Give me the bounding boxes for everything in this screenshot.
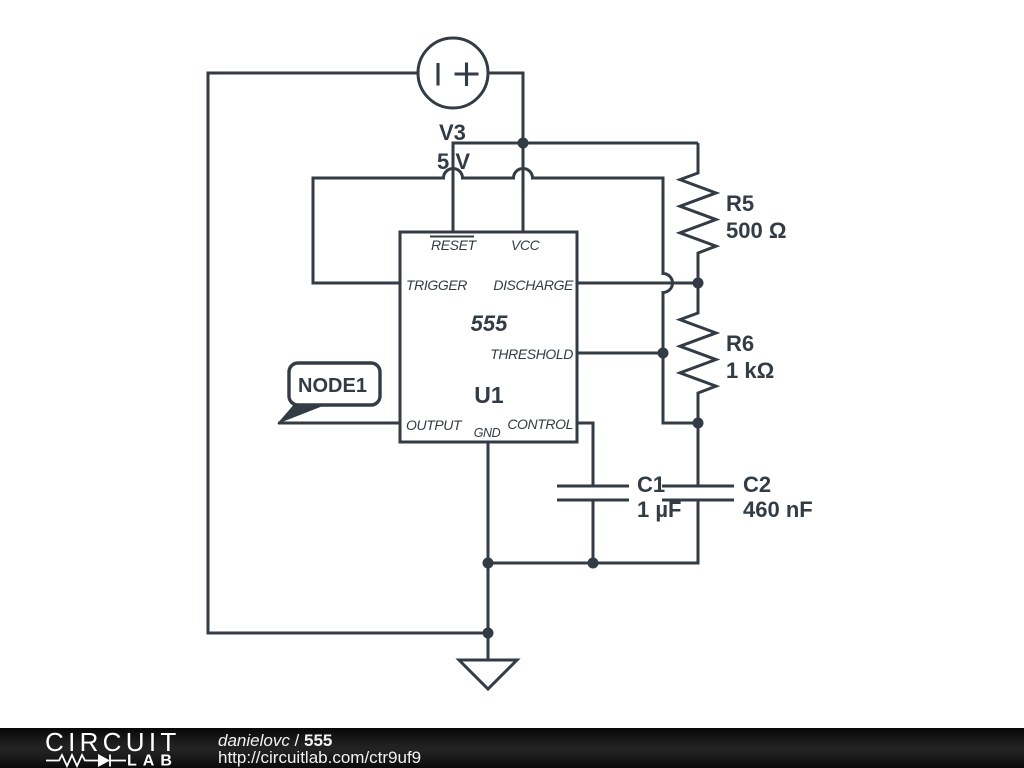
svg-text:500 Ω: 500 Ω [726, 218, 786, 243]
svg-text:TRIGGER: TRIGGER [406, 277, 467, 293]
svg-text:555: 555 [471, 311, 508, 336]
svg-text:THRESHOLD: THRESHOLD [490, 346, 573, 362]
svg-text:VCC: VCC [511, 237, 541, 253]
svg-text:5 V: 5 V [437, 149, 470, 174]
svg-text:RESET: RESET [431, 237, 478, 253]
svg-text:NODE1: NODE1 [298, 375, 367, 397]
svg-text:OUTPUT: OUTPUT [406, 417, 463, 433]
svg-text:R5: R5 [726, 191, 754, 216]
svg-text:C1: C1 [637, 472, 665, 497]
svg-text:GND: GND [474, 426, 501, 440]
svg-text:R6: R6 [726, 331, 754, 356]
svg-text:V3: V3 [439, 120, 466, 145]
svg-text:1 µF: 1 µF [637, 497, 681, 522]
svg-text:LAB: LAB [127, 753, 178, 768]
svg-text:1 kΩ: 1 kΩ [726, 358, 774, 383]
svg-text:C2: C2 [743, 472, 771, 497]
svg-text:DISCHARGE: DISCHARGE [493, 277, 574, 293]
svg-text:CONTROL: CONTROL [507, 416, 573, 432]
svg-text:U1: U1 [474, 382, 504, 408]
svg-text:460 nF: 460 nF [743, 497, 813, 522]
